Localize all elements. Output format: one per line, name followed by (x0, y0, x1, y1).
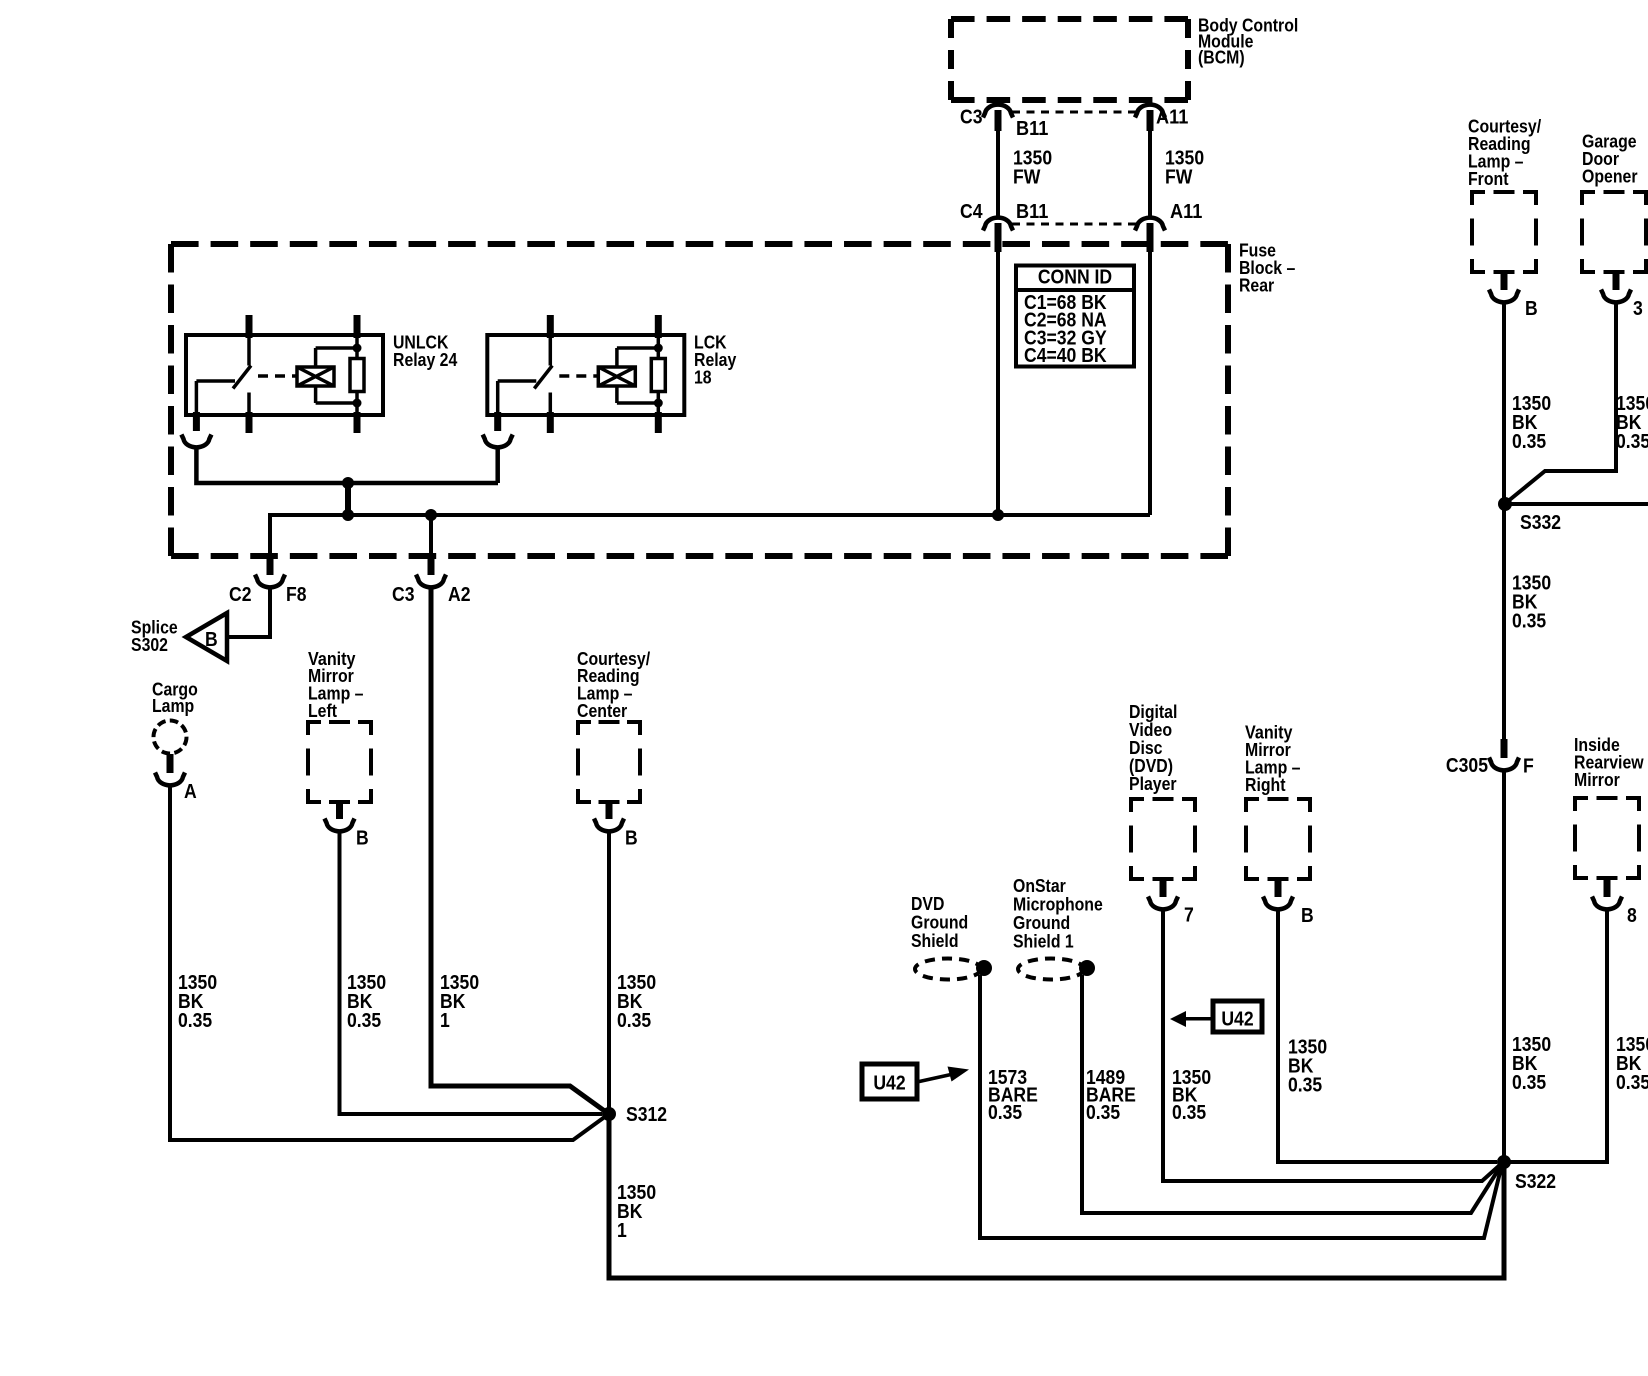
connector garage arc (1601, 290, 1631, 303)
connector vanity-left pin stub (336, 801, 343, 819)
svg-text:OnStar: OnStar (1013, 876, 1066, 896)
lamp Courtesy Reading Lamp Front dashed box (1472, 192, 1485, 205)
table CONN ID box (1016, 266, 1134, 367)
wire 1350 FW right (BCM A11 to fuse block A11) (1148, 128, 1152, 216)
svg-text:DVD: DVD (911, 894, 944, 914)
svg-text:Player: Player (1129, 774, 1177, 794)
connector mirror pin stub (1604, 877, 1611, 897)
connector Cargo Lamp pin stub (167, 754, 174, 773)
wire DVD player to S322 (1163, 908, 1501, 1181)
connector mirror arc (1592, 897, 1622, 910)
svg-text:S302: S302 (131, 635, 168, 655)
lamp Vanity Mirror Lamp Right dashed box (1246, 799, 1259, 812)
svg-text:B: B (356, 828, 369, 850)
svg-text:C305: C305 (1446, 755, 1488, 777)
lamp Vanity Mirror Lamp Left dashed box (308, 722, 321, 735)
svg-text:0.35: 0.35 (1616, 1072, 1648, 1094)
svg-text:C4=40 BK: C4=40 BK (1024, 345, 1107, 367)
junction bus left (342, 509, 354, 521)
callout U42 right arrow (1186, 1017, 1213, 1021)
connector vanity-left arc (325, 819, 355, 832)
node OnStar shield terminal dot (1079, 960, 1095, 976)
connector A11 pin stub (1147, 110, 1154, 131)
connector garage pin stub (1613, 271, 1620, 290)
connector C305 stub (1501, 739, 1508, 758)
svg-text:Relay 24: Relay 24 (393, 350, 457, 370)
svg-text:0.35: 0.35 (1512, 431, 1546, 453)
wire LCK relay output (495, 446, 500, 483)
svg-text:C4: C4 (960, 201, 983, 223)
relay UNLCK Relay 24 (186, 335, 383, 415)
connector C3 (BCM) arc (983, 105, 1013, 118)
junction relay outputs (342, 477, 354, 489)
svg-text:18: 18 (694, 367, 712, 387)
svg-text:0.35: 0.35 (1086, 1102, 1120, 1124)
connector courtesy-center arc (594, 819, 624, 832)
wire C305 to S322 (1502, 769, 1506, 1162)
wire garage door opener to S332 (1507, 301, 1616, 502)
wire 1350 BK 1 from S312 to S322 (609, 1114, 1504, 1278)
wire vanity-left to S312 (340, 831, 603, 1114)
lamp Cargo Lamp dashed circle (154, 721, 187, 754)
connector courtesy-front arc (1489, 290, 1519, 303)
wire C2-F8 to splice S302 (229, 586, 270, 637)
svg-text:C2: C2 (229, 584, 252, 606)
wire courtesy-front to S332 (1502, 301, 1506, 504)
lamp Garage Door Opener dashed box (1582, 192, 1595, 205)
connector DVD player arc (1148, 897, 1178, 910)
wire cargo lamp to S312 (170, 784, 606, 1140)
svg-text:0.35: 0.35 (988, 1102, 1022, 1124)
svg-text:0.35: 0.35 (347, 1010, 381, 1032)
svg-text:Left: Left (308, 701, 337, 721)
svg-text:S322: S322 (1515, 1171, 1556, 1193)
wire S332 to C305 (1502, 504, 1506, 742)
svg-text:Lamp: Lamp (152, 696, 194, 716)
svg-text:Shield 1: Shield 1 (1013, 931, 1074, 951)
svg-text:Center: Center (577, 701, 627, 721)
svg-text:Right: Right (1245, 775, 1286, 795)
svg-text:CONN ID: CONN ID (1038, 267, 1112, 289)
connector C2-F8 stub (267, 553, 274, 575)
connector arc below UNLCK relay (181, 435, 211, 448)
svg-text:B11: B11 (1016, 201, 1048, 223)
wire S332 to right edge (1505, 502, 1648, 506)
svg-text:0.35: 0.35 (1512, 610, 1546, 632)
svg-text:C3: C3 (960, 107, 983, 129)
junction bus at C3-A2 tap (425, 509, 437, 521)
svg-text:S332: S332 (1520, 512, 1561, 534)
svg-text:Rear: Rear (1239, 275, 1274, 295)
svg-text:A2: A2 (448, 584, 471, 606)
connector vanity-right pin stub (1275, 878, 1282, 897)
callout U42 box left (862, 1064, 917, 1099)
svg-text:Ground: Ground (1013, 913, 1070, 933)
connector Cargo Lamp arc (155, 773, 185, 786)
splice S312 junction dot (602, 1107, 616, 1121)
connector courtesy-front pin stub (1501, 271, 1508, 290)
callout U42 box right (1213, 1001, 1262, 1032)
svg-text:1: 1 (617, 1220, 627, 1242)
connector A11 row2 stub (1147, 223, 1154, 252)
svg-text:Ground: Ground (911, 912, 968, 932)
svg-text:B: B (625, 828, 638, 850)
connector vanity-right arc (1263, 897, 1293, 910)
splice S322 junction dot (1497, 1155, 1511, 1169)
svg-text:A11: A11 (1170, 201, 1202, 223)
svg-text:(BCM): (BCM) (1198, 47, 1245, 67)
svg-text:S312: S312 (626, 1104, 667, 1126)
table CONN ID header separator (1016, 288, 1134, 292)
svg-text:F8: F8 (286, 584, 307, 606)
wire A11 to bus (1148, 250, 1152, 515)
splice symbol S302 triangle (186, 613, 227, 661)
connector face line C3-A11 (1012, 111, 1136, 114)
connector A11 (BCM) arc (1135, 105, 1165, 118)
wire vanity-right to S322 (1278, 908, 1497, 1162)
connector A11 row2 arc (1135, 218, 1165, 231)
node DVD shield terminal dot (976, 960, 992, 976)
wire mirror to S322 (1508, 908, 1607, 1162)
svg-text:0.35: 0.35 (1616, 431, 1648, 453)
svg-text:1: 1 (440, 1010, 450, 1032)
svg-text:Digital: Digital (1129, 702, 1177, 722)
shield DVD Ground Shield dashed ellipse (915, 959, 981, 980)
svg-text:F: F (1523, 756, 1534, 778)
module Inside Rearview Mirror dashed box (1575, 798, 1588, 811)
svg-text:B: B (1525, 298, 1538, 320)
wire bus to C2-F8 (268, 513, 272, 556)
svg-text:U42: U42 (873, 1073, 905, 1095)
wire fuse block internal bus (270, 513, 1150, 517)
svg-text:8: 8 (1627, 905, 1637, 927)
svg-text:A11: A11 (1156, 107, 1188, 129)
splice S332 junction dot (1498, 497, 1512, 511)
svg-text:0.35: 0.35 (1288, 1074, 1322, 1096)
wire OnStar shield to S322 (1082, 975, 1502, 1213)
svg-text:3: 3 (1633, 298, 1643, 320)
svg-text:C3: C3 (392, 584, 415, 606)
connector C2-F8 arc (255, 575, 285, 588)
connector C3-A2 arc (416, 575, 446, 588)
svg-text:0.35: 0.35 (617, 1010, 651, 1032)
wire bus to C3-A2 (429, 513, 433, 556)
relay LCK Relay 18 (487, 335, 684, 415)
wire 1350 FW left (BCM C3-B11 to fuse block C4-B11) (996, 128, 1000, 216)
svg-text:Opener: Opener (1582, 166, 1638, 186)
svg-text:B: B (1301, 905, 1314, 927)
module DVD Player dashed box (1131, 799, 1144, 812)
connector DVD player pin stub (1160, 878, 1167, 897)
svg-text:7: 7 (1184, 905, 1194, 927)
svg-text:0.35: 0.35 (178, 1010, 212, 1032)
svg-text:0.35: 0.35 (1512, 1072, 1546, 1094)
svg-text:Mirror: Mirror (1574, 770, 1620, 790)
shield OnStar dashed ellipse (1018, 959, 1084, 980)
svg-text:Disc: Disc (1129, 738, 1163, 758)
callout U42 left arrow (917, 1075, 951, 1083)
svg-text:FW: FW (1165, 166, 1193, 188)
svg-text:B11: B11 (1016, 118, 1048, 140)
svg-text:U42: U42 (1221, 1009, 1253, 1031)
connector C4 stub (995, 223, 1002, 252)
wire courtesy-center to S312 (607, 831, 611, 1114)
connector face line C4-A11 (1012, 223, 1136, 226)
wire C4 to bus (996, 250, 1000, 515)
svg-text:Video: Video (1129, 720, 1172, 740)
connector arc below LCK relay (483, 435, 513, 448)
module Fuse Block - Rear dashed box (171, 241, 1228, 247)
connector C4 arc (983, 218, 1013, 231)
svg-text:(DVD): (DVD) (1129, 756, 1173, 776)
svg-text:B: B (205, 629, 218, 651)
module Body Control Module (BCM) dashed box (951, 16, 1188, 22)
connector C3-A2 stub (428, 553, 435, 575)
connector courtesy-center pin stub (606, 801, 613, 819)
svg-text:0.35: 0.35 (1172, 1102, 1206, 1124)
svg-text:Microphone: Microphone (1013, 894, 1103, 914)
wire junction to bus (345, 481, 351, 517)
svg-text:A: A (184, 781, 197, 803)
junction bus at C4 wire (992, 509, 1004, 521)
wire 1350 BK 1 from C3-A2 to S312 (431, 586, 606, 1112)
connector C3 pin stub (995, 110, 1002, 131)
connector C305 arc (1489, 758, 1519, 771)
svg-text:Front: Front (1468, 169, 1509, 189)
lamp Courtesy Reading Lamp Center dashed box (578, 722, 591, 735)
wire DVD shield to S322 (980, 975, 1502, 1238)
svg-text:FW: FW (1013, 166, 1041, 188)
svg-text:Shield: Shield (911, 931, 959, 951)
wire UNLCK relay output (196, 446, 498, 483)
